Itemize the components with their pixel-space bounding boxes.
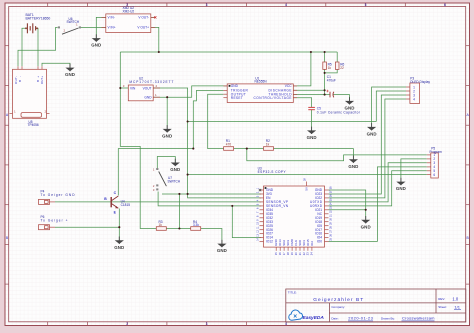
bottom pin numbers rotated: [274, 252, 314, 255]
wire 555 OUTPUT to R1: [208, 94, 224, 148]
right pin stubs: [325, 190, 329, 242]
svg-text:GND: GND: [162, 134, 172, 139]
wire 3V3 rail to OLED pin2: [188, 121, 377, 123]
svg-text:GND: GND: [396, 186, 406, 191]
svg-text:V IN-: V IN-: [108, 16, 115, 20]
svg-text:1k: 1k: [266, 142, 270, 146]
wire R1 to R2 to GND: [234, 148, 264, 150]
capacitor C5: [308, 107, 360, 115]
wire 555 VCC up to rail: [293, 52, 311, 86]
ground boost V IN-: [92, 34, 101, 41]
svg-text:OLED Display: OLED Display: [410, 80, 430, 84]
wire 5V rail: [120, 51, 337, 53]
svg-text:NE555N: NE555N: [255, 80, 268, 84]
node 3V3 pin: [187, 193, 189, 195]
wire C5 bottom to GND: [311, 110, 313, 131]
left pin names: [266, 188, 289, 244]
bottom pin names rotated: [274, 238, 314, 246]
svg-text:GND: GND: [217, 248, 227, 253]
wire 555 TRIGGER drop: [193, 91, 223, 149]
node emitter-P6: [118, 226, 120, 228]
resistor R6: [335, 62, 344, 70]
node 3V3-P5: [187, 174, 189, 176]
node R5R6 bottoms: [324, 72, 326, 74]
svg-text:IO2: IO2: [310, 241, 314, 246]
resistor R2: [264, 139, 274, 150]
EasyEDA logo: [289, 310, 325, 321]
svg-text:1/1: 1/1: [454, 305, 460, 310]
svg-text:Drawn By:: Drawn By:: [381, 317, 395, 321]
ground P5 pin2: [396, 178, 405, 185]
MCU U3 ESP32 module: [257, 166, 333, 255]
svg-text:3: 3: [206, 322, 208, 326]
svg-text:470uF: 470uF: [327, 78, 336, 82]
frame zone ticks bottom: [48, 322, 286, 326]
connector P3 OLED Display: [406, 77, 430, 104]
svg-text:22: 22: [340, 66, 344, 70]
wire OLED pin2 drop: [376, 91, 406, 122]
svg-text:2: 2: [126, 322, 128, 326]
svg-text:SWITCH: SWITCH: [168, 180, 181, 184]
svg-text:Program: Program: [430, 150, 443, 154]
wire 3V3 row into ESP32: [162, 193, 261, 195]
op-amp/timer U1 NE555N: [223, 76, 297, 102]
node gnd-io21: [365, 209, 367, 211]
svg-text:MCP1700T-3302ETT: MCP1700T-3302ETT: [129, 80, 173, 84]
node VN-IO14 branch: [231, 205, 233, 207]
ground emitter: [115, 237, 124, 244]
wire battery left to B+: [22, 28, 27, 66]
svg-text:V OUT-: V OUT-: [138, 16, 149, 20]
frame zone ticks top: [48, 3, 445, 7]
wire 555 DISCHARGE: [293, 89, 324, 91]
svg-text:Date:: Date:: [331, 317, 338, 321]
svg-text:VCC: VCC: [285, 84, 292, 88]
svg-text:0.1uF Ceramic Capacitor: 0.1uF Ceramic Capacitor: [317, 110, 361, 114]
svg-text:VOUT: VOUT: [143, 86, 152, 90]
svg-text:To Geiger +: To Geiger +: [41, 218, 68, 222]
connector P5 Program: [427, 146, 442, 178]
wire TP4056 OUT- to GND: [42, 63, 70, 67]
node R3-R4: [178, 227, 180, 229]
wire U2 GND symbol stem: [166, 97, 168, 129]
svg-text:4: 4: [413, 97, 415, 101]
svg-text:6: 6: [433, 173, 435, 177]
node U2 GND: [166, 96, 168, 98]
svg-text:GND: GND: [170, 167, 180, 172]
wire R3 to R4 row: [166, 228, 190, 230]
connector P6 To Geiger +: [39, 215, 68, 230]
svg-text:VIN: VIN: [130, 86, 136, 90]
svg-text:470: 470: [226, 142, 232, 146]
ESP32 right pin numbers: [330, 186, 333, 241]
wire emitter to GND: [118, 209, 120, 241]
svg-text:V IN+: V IN+: [108, 26, 116, 30]
transistor U4 C1815: [104, 191, 130, 215]
wire P4 to base and SENSOR_VP: [55, 201, 261, 203]
node discharge: [324, 89, 326, 91]
USB connector drawing: [21, 113, 42, 118]
wire U2 VIN stub: [120, 87, 128, 89]
svg-text:ESP32-S COPY: ESP32-S COPY: [258, 170, 287, 174]
wire P5 pin2 to GND: [401, 159, 427, 182]
svg-text:4: 4: [285, 322, 287, 326]
battery BAT1: [25, 13, 50, 33]
svg-text:V OUT+: V OUT+: [137, 26, 149, 30]
wire battery right to B-: [36, 28, 38, 66]
wire U7 pin1 to GND: [157, 157, 175, 170]
title block: [286, 289, 466, 322]
svg-text:SWITCH: SWITCH: [67, 20, 80, 24]
right pin names: [310, 188, 323, 244]
capacitor C1: [326, 75, 335, 97]
ESP32 left pin numbers: [257, 187, 260, 241]
svg-text:GND: GND: [307, 135, 317, 140]
wire IO21 join: [329, 209, 366, 211]
wire 3V3 to P5 pin6: [188, 174, 427, 176]
wire EN branch to P5 pin1: [247, 149, 427, 161]
wire OLED pin4 to IO22: [329, 99, 407, 198]
svg-text:5V: 5V: [305, 187, 309, 191]
ground C5: [307, 127, 316, 134]
wire branch to IO14: [232, 206, 261, 238]
svg-text:GND: GND: [91, 43, 101, 48]
wire 555 CONTROL to C5: [293, 98, 311, 108]
svg-text:3: 3: [206, 3, 208, 7]
svg-text:C1815: C1815: [121, 203, 131, 207]
node R3R4 pullup: [178, 193, 180, 195]
ground IO21: [361, 216, 370, 223]
wire collector node to 555 trigger: [118, 149, 193, 196]
wire R5 top: [324, 52, 326, 62]
node threshold: [324, 94, 326, 96]
svg-text:1k: 1k: [328, 66, 332, 70]
node 3V3 rail tap: [187, 120, 189, 122]
wire TP4056 OUT+ to switch: [18, 27, 58, 66]
wire OLED pin1 to GND: [372, 87, 406, 127]
wire boost V IN- to GND: [96, 17, 106, 38]
svg-text:1.0: 1.0: [452, 296, 458, 301]
resistor R5: [323, 62, 332, 70]
resistor R3: [156, 220, 166, 230]
wire 5V down through VIN to R3: [120, 52, 156, 229]
svg-text:GND: GND: [231, 84, 239, 88]
ground R2: [349, 156, 358, 163]
wire TXD0 to P5 pin3: [329, 163, 427, 202]
ground U2/555: [163, 125, 172, 132]
node trigger-collector: [192, 148, 194, 150]
frame zone ticks left/right: [5, 46, 470, 284]
svg-text:REV:: REV:: [438, 297, 445, 301]
svg-text:3.3k: 3.3k: [193, 223, 199, 227]
wire boost VOUT+ drop: [151, 27, 159, 52]
left pin stubs: [260, 190, 264, 242]
connector P4 To Geiger GND: [39, 190, 76, 205]
svg-text:IO0: IO0: [317, 240, 322, 244]
ESP32 top pin: [306, 182, 308, 187]
regulator U2 MCP1700T: [123, 76, 174, 100]
svg-text:IO12: IO12: [266, 240, 273, 244]
wire IO0 to P5 pin4: [329, 167, 427, 242]
node R1-R2: [246, 148, 248, 150]
switch U7: [153, 167, 181, 192]
wire RXD0 to P5 pin5: [329, 171, 427, 206]
wire 555 THRESHOLD to C1: [293, 94, 329, 96]
svg-text:BATTERY18650: BATTERY18650: [26, 17, 51, 21]
node rail-vout+: [158, 51, 160, 53]
resistor R4: [191, 220, 201, 230]
wire OLED pin3 to IO23: [329, 95, 407, 194]
svg-text:GND: GND: [361, 224, 371, 229]
svg-text:2020-01-23: 2020-01-23: [348, 316, 373, 321]
ground R4: [217, 240, 226, 247]
svg-text:GND: GND: [348, 164, 358, 169]
wire C1 right to GND: [333, 95, 349, 101]
svg-text:1k: 1k: [159, 223, 163, 227]
switch U6: [58, 17, 81, 34]
svg-text:4: 4: [285, 3, 287, 7]
module U5 TP4056: [10, 66, 50, 127]
svg-text:GND: GND: [144, 96, 152, 100]
svg-text:6: 6: [444, 3, 446, 7]
wire P6 to emitter node: [55, 226, 119, 228]
svg-text:OUT+: OUT+: [40, 76, 44, 84]
svg-text:TITLE:: TITLE:: [288, 291, 297, 295]
svg-text:GND: GND: [114, 245, 124, 250]
node U2 VIN tap: [119, 87, 121, 89]
ground U7 pin1: [171, 159, 180, 166]
ground TP4056 OUT-: [65, 64, 74, 71]
resistor R1: [224, 139, 234, 150]
wire ESP32 GND pin right to GND: [329, 190, 366, 220]
ground C1: [345, 97, 354, 104]
wire U7 pin3 to SENSOR_VN: [158, 192, 261, 206]
wire R4 to GND: [201, 229, 222, 244]
svg-text:To Geiger GND: To Geiger GND: [41, 193, 76, 197]
wire U2 VOUT 3V3 vertical down to EN: [153, 88, 261, 198]
svg-text:Sheet:: Sheet:: [438, 305, 447, 309]
wire R5 bottom to DISCHARGE/THRESHOLD: [324, 69, 326, 94]
wire R6 top: [336, 52, 338, 62]
svg-text:CONTROL/VOLTAGE: CONTROL/VOLTAGE: [254, 96, 292, 100]
svg-text:TP4056: TP4056: [28, 123, 39, 127]
svg-text:Company:: Company:: [331, 305, 345, 309]
ground OLED pin1: [367, 123, 376, 130]
wire U2 GND link to 555 GND: [153, 86, 227, 97]
wire R6 bottom link: [325, 69, 338, 73]
node rail-555vcc: [310, 51, 312, 53]
wire boost V OUT- stub: [151, 16, 156, 18]
wire R3-R4 junction pullup: [178, 194, 180, 229]
svg-text:GND: GND: [65, 72, 75, 77]
svg-text:5: 5: [365, 3, 367, 7]
svg-text:EasyEDA: EasyEDA: [303, 315, 325, 321]
bottom pin stubs: [276, 247, 312, 251]
svg-text:XM2-U2: XM2-U2: [123, 10, 135, 14]
svg-text:RESET: RESET: [231, 96, 243, 100]
svg-text:GND: GND: [367, 132, 377, 137]
svg-text:Crosswalkersam: Crosswalkersam: [402, 316, 435, 321]
module U4 boost converter: [102, 6, 157, 33]
node rail-R5: [324, 51, 326, 53]
wire switch to boost V IN+: [81, 26, 106, 28]
